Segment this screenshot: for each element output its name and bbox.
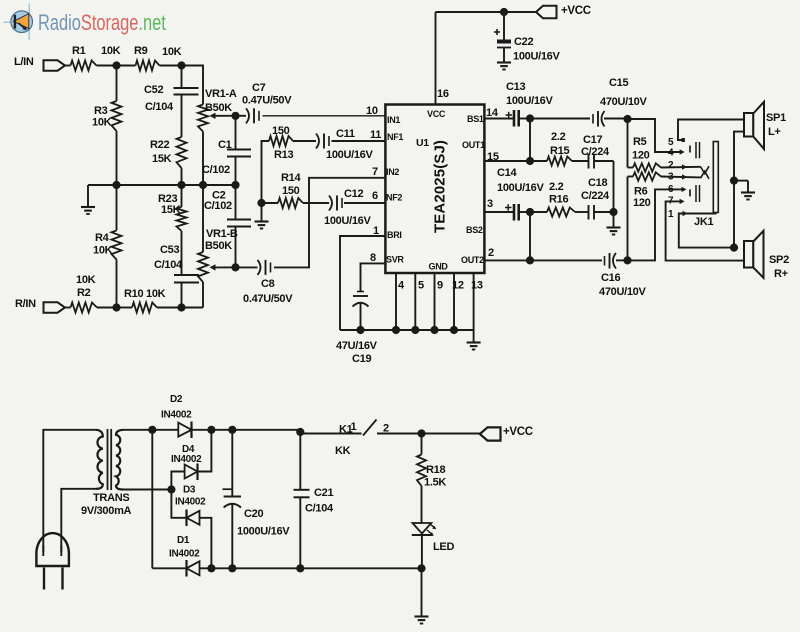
svg-text:3: 3 bbox=[487, 198, 493, 210]
pin 12 wire bbox=[453, 274, 455, 331]
capacitor C8 0.47U/50V bbox=[236, 266, 258, 268]
svg-text:OUT1: OUT1 bbox=[462, 140, 485, 150]
ground symbol C22 bbox=[497, 61, 511, 63]
resistor R2 10K bbox=[65, 307, 71, 309]
ground symbol NF bbox=[261, 203, 263, 221]
wire VCC top rail bbox=[436, 11, 537, 13]
capacitor C11 100U/16V bbox=[293, 140, 316, 142]
svg-text:U1: U1 bbox=[416, 137, 429, 149]
svg-text:10K: 10K bbox=[146, 288, 166, 300]
svg-text:BRI: BRI bbox=[387, 230, 402, 240]
svg-text:C/224: C/224 bbox=[581, 190, 610, 202]
svg-text:TRANS: TRANS bbox=[93, 492, 129, 504]
switch K1 bbox=[363, 420, 377, 436]
node LED bottom bbox=[417, 564, 425, 572]
node pin 5 bbox=[411, 326, 419, 334]
svg-text:JK1: JK1 bbox=[694, 216, 713, 228]
wire R9 to node bbox=[160, 65, 182, 67]
resistor R3 10K bbox=[116, 66, 118, 102]
connector R/IN input bbox=[44, 302, 66, 312]
node C14 / pin2 bbox=[526, 208, 534, 216]
wire secondary bottom bbox=[123, 489, 171, 491]
svg-text:C/102: C/102 bbox=[204, 200, 232, 212]
diode D2 IN4002 bbox=[178, 423, 191, 437]
svg-text:C19: C19 bbox=[352, 353, 371, 365]
svg-text:C/104: C/104 bbox=[154, 259, 183, 271]
pin 15 wire bbox=[484, 160, 530, 162]
node C52 top bbox=[177, 61, 185, 69]
pin 9 wire bbox=[434, 274, 436, 331]
svg-text:IN4002: IN4002 bbox=[161, 410, 192, 421]
wire C17 to gnd node bbox=[613, 161, 615, 212]
svg-text:100U/16V: 100U/16V bbox=[497, 182, 544, 194]
wire node A down to D1 bbox=[151, 430, 153, 569]
capacitor C12 100U/16V bbox=[303, 202, 329, 204]
node rail VR1 bbox=[199, 181, 207, 189]
svg-text:12: 12 bbox=[452, 280, 464, 292]
svg-text:C16: C16 bbox=[601, 272, 620, 284]
capacitor C14 100U/16V bbox=[485, 211, 514, 213]
pin 3 wire bbox=[484, 211, 505, 213]
svg-text:9V/300mA: 9V/300mA bbox=[81, 505, 132, 517]
node bridge B bbox=[167, 485, 175, 493]
node pin 2 bbox=[526, 256, 534, 264]
svg-text:C/224: C/224 bbox=[581, 146, 610, 158]
svg-text:R3: R3 bbox=[94, 105, 108, 117]
svg-text:120: 120 bbox=[632, 150, 650, 162]
svg-text:B50K: B50K bbox=[205, 240, 232, 252]
capacitor C17 C/224 bbox=[572, 160, 589, 162]
svg-text:R10: R10 bbox=[124, 288, 143, 300]
svg-text:C/102: C/102 bbox=[202, 164, 230, 176]
connector +VCC bottom bbox=[480, 427, 501, 440]
resistor R13 150 bbox=[262, 141, 270, 203]
svg-text:C52: C52 bbox=[144, 84, 163, 96]
op-amp U1 TEA2025(SJ) IC body bbox=[385, 105, 484, 274]
capacitor C2 C/102 bbox=[235, 185, 237, 220]
svg-text:R4: R4 bbox=[95, 232, 110, 244]
pin 13 wire bbox=[473, 274, 475, 331]
wire L out to jack 4 bbox=[628, 119, 682, 152]
wire BS2 to OUT2 bbox=[529, 212, 531, 260]
svg-text:0.47U/50V: 0.47U/50V bbox=[242, 95, 292, 107]
wire R out to R6 bbox=[627, 177, 629, 261]
pin 16 wire VCC bbox=[435, 12, 437, 105]
resistor R23 15K bbox=[181, 185, 183, 207]
svg-text:100U/16V: 100U/16V bbox=[506, 95, 553, 107]
svg-text:1: 1 bbox=[668, 209, 674, 220]
wire R2 to node bbox=[97, 307, 117, 309]
svg-text:VR1-B: VR1-B bbox=[206, 228, 238, 240]
resistor R15 2.2 bbox=[530, 160, 547, 162]
svg-text:10K: 10K bbox=[93, 245, 113, 257]
ground symbol zobel bbox=[613, 212, 615, 227]
diode D3 IN4002 bbox=[171, 490, 186, 518]
svg-text:2: 2 bbox=[668, 160, 674, 171]
wire C8 to pin 7 bbox=[274, 178, 385, 268]
resistor R22 15K bbox=[177, 137, 187, 168]
transformer TRANS 9V/300mA bbox=[96, 430, 103, 489]
wire R out to jack 6 bbox=[628, 189, 684, 260]
potentiometer VR1-B B50K bbox=[202, 185, 204, 252]
resistor R16 2.2 bbox=[530, 211, 547, 213]
node C21 top bbox=[296, 428, 304, 436]
svg-text:D1: D1 bbox=[177, 535, 190, 546]
svg-text:1: 1 bbox=[351, 421, 357, 433]
wire L out to R5 bbox=[627, 119, 629, 168]
svg-text:SVR: SVR bbox=[386, 255, 404, 265]
svg-text:BS1: BS1 bbox=[467, 114, 484, 124]
RadioStorage.net logo bbox=[28, 4, 30, 41]
svg-text:10: 10 bbox=[366, 105, 378, 117]
svg-text:R1: R1 bbox=[72, 45, 86, 57]
wire speaker SP1 to jack 5 bbox=[678, 120, 744, 141]
svg-text:VR1-A: VR1-A bbox=[205, 88, 237, 100]
bottom supply rail bbox=[211, 567, 421, 569]
node speaker ground bbox=[730, 177, 738, 185]
svg-text:C/104: C/104 bbox=[305, 503, 334, 515]
svg-text:10K: 10K bbox=[162, 46, 182, 58]
svg-text:100U/16V: 100U/16V bbox=[324, 215, 371, 227]
svg-text:470U/10V: 470U/10V bbox=[600, 96, 647, 108]
svg-text:150: 150 bbox=[282, 185, 300, 197]
ground symbol input rail bbox=[87, 185, 89, 206]
svg-text:R5: R5 bbox=[633, 136, 647, 148]
pin 5 wire bbox=[414, 274, 416, 331]
wire SP1 return bbox=[734, 132, 744, 181]
capacitor C22 100U/16V bbox=[503, 12, 505, 40]
diode D4 IN4002 bbox=[171, 472, 184, 490]
wire jack 1 sleeve to ground bbox=[679, 214, 734, 248]
pin 4 wire bbox=[395, 274, 397, 331]
svg-text:KK: KK bbox=[335, 445, 351, 457]
svg-text:R13: R13 bbox=[274, 149, 293, 161]
wire plug to primary bottom bbox=[61, 489, 96, 552]
node C20 top bbox=[228, 426, 236, 434]
svg-text:D3: D3 bbox=[183, 485, 196, 496]
svg-text:R+: R+ bbox=[774, 268, 788, 280]
node rail R22/R23 bbox=[177, 181, 185, 189]
node R/IN junction bbox=[112, 303, 120, 311]
wire ground rail to SP2 bbox=[733, 181, 735, 248]
svg-text:+VCC: +VCC bbox=[561, 5, 591, 17]
svg-text:100U/16V: 100U/16V bbox=[513, 51, 560, 63]
pin 2 wire OUT2 bbox=[484, 259, 530, 261]
resistor R9 10K bbox=[136, 61, 160, 71]
capacitor C16 470U/10V bbox=[604, 256, 606, 266]
svg-text:R14: R14 bbox=[281, 172, 301, 184]
svg-text:C17: C17 bbox=[583, 134, 602, 146]
capacitor C18 C/224 bbox=[575, 211, 589, 213]
svg-text:L+: L+ bbox=[768, 126, 781, 138]
ground symbol speakers bbox=[734, 180, 748, 182]
wire pin 1 BRI bbox=[340, 236, 385, 330]
svg-text:NF2: NF2 bbox=[386, 193, 402, 203]
wire switch to +VCC bbox=[377, 433, 480, 435]
node rail C1/C2 bbox=[231, 181, 239, 189]
wire R5 to jack 2 bbox=[661, 166, 701, 169]
headphone jack JK1 contacts bbox=[695, 142, 697, 158]
speaker SP2 bbox=[744, 241, 753, 268]
svg-text:IN4002: IN4002 bbox=[175, 497, 206, 508]
wire secondary top rail bbox=[123, 429, 300, 431]
svg-text:C/104: C/104 bbox=[145, 101, 174, 113]
node R18 top bbox=[417, 429, 425, 437]
svg-text:6: 6 bbox=[668, 184, 674, 195]
svg-text:B50K: B50K bbox=[205, 102, 232, 114]
node rail R3/R4 bbox=[112, 181, 120, 189]
connector L/IN input bbox=[44, 60, 66, 70]
wire node to VR1-A top bbox=[182, 66, 204, 105]
node pin 9 bbox=[430, 326, 438, 334]
resistor R18 1.5K bbox=[421, 434, 423, 455]
svg-text:SP1: SP1 bbox=[766, 112, 786, 124]
capacitor C19 47U/16V bbox=[357, 291, 364, 293]
svg-text:R15: R15 bbox=[550, 145, 569, 157]
svg-text:10K: 10K bbox=[101, 45, 121, 57]
svg-text:100U/16V: 100U/16V bbox=[326, 149, 373, 161]
svg-text:10K: 10K bbox=[76, 274, 96, 286]
wire jack 7 to speaker SP2 bbox=[666, 201, 744, 260]
svg-text:GND: GND bbox=[429, 262, 449, 272]
svg-text:10K: 10K bbox=[92, 117, 112, 129]
resistor R6 120 bbox=[628, 176, 634, 178]
svg-text:IN4002: IN4002 bbox=[171, 454, 202, 465]
svg-text:16: 16 bbox=[437, 88, 449, 100]
capacitor C1 C/102 bbox=[235, 116, 237, 150]
svg-text:C21: C21 bbox=[314, 487, 333, 499]
resistor R5 120 bbox=[628, 167, 634, 169]
svg-text:VCC: VCC bbox=[427, 109, 446, 119]
svg-text:C14: C14 bbox=[497, 167, 517, 179]
svg-text:C18: C18 bbox=[588, 177, 607, 189]
wire R6 to jack 3 bbox=[661, 176, 701, 179]
svg-text:1000U/16V: 1000U/16V bbox=[237, 526, 290, 538]
node R10 / C53 bbox=[177, 303, 185, 311]
svg-text:470U/10V: 470U/10V bbox=[599, 286, 646, 298]
wire node to VR1-B bottom bbox=[182, 307, 204, 309]
AC plug bbox=[36, 533, 69, 566]
node C13 / pin15 bbox=[526, 114, 534, 122]
connector +VCC top bbox=[536, 6, 557, 18]
resistor R1 10K bbox=[71, 61, 97, 71]
node bridge A bbox=[148, 426, 156, 434]
node VR1-B wiper / C2 bottom bbox=[231, 263, 239, 271]
resistor R4 10K bbox=[116, 185, 118, 231]
capacitor C7 0.47U/50V bbox=[236, 115, 247, 117]
svg-text:R22: R22 bbox=[150, 139, 169, 151]
svg-text:C20: C20 bbox=[244, 508, 263, 520]
svg-text:IN4002: IN4002 bbox=[169, 549, 200, 560]
node pin 15 bbox=[526, 157, 534, 165]
node D1/D3 bbox=[207, 564, 215, 572]
wire pin 8 SVR bbox=[361, 263, 386, 291]
node pin 4 bbox=[392, 326, 400, 334]
node C21 bottom bbox=[296, 564, 304, 572]
node R output bbox=[623, 256, 631, 264]
svg-text:7: 7 bbox=[668, 196, 674, 207]
svg-text:L/IN: L/IN bbox=[14, 56, 34, 68]
node L/IN junction bbox=[112, 61, 120, 69]
wire OUT2 to C16 bbox=[530, 259, 602, 261]
svg-text:R16: R16 bbox=[549, 194, 568, 206]
capacitor C13 100U/16V bbox=[485, 118, 514, 120]
svg-text:47U/16V: 47U/16V bbox=[336, 340, 378, 352]
svg-text:C12: C12 bbox=[344, 188, 363, 200]
svg-text:IN1: IN1 bbox=[387, 115, 400, 125]
svg-text:C53: C53 bbox=[160, 244, 179, 256]
wire C7 to pin 10 bbox=[263, 115, 386, 117]
resistor R14 150 bbox=[262, 202, 279, 204]
svg-text:D2: D2 bbox=[170, 394, 183, 405]
svg-text:RadioStorage.net: RadioStorage.net bbox=[38, 11, 166, 36]
potentiometer VR1-A B50K bbox=[198, 105, 208, 132]
wire R1 to node bbox=[97, 65, 117, 67]
node VR1-A wiper / C1 top bbox=[231, 112, 239, 120]
node L output bbox=[623, 115, 631, 123]
svg-text:SP2: SP2 bbox=[769, 254, 789, 266]
svg-text:0.47U/50V: 0.47U/50V bbox=[243, 293, 293, 305]
svg-text:4: 4 bbox=[668, 148, 674, 159]
svg-text:R18: R18 bbox=[426, 464, 445, 476]
svg-text:C1: C1 bbox=[218, 139, 232, 151]
wire plug to primary top bbox=[43, 430, 96, 552]
svg-text:7: 7 bbox=[372, 166, 378, 178]
svg-text:1.5K: 1.5K bbox=[424, 477, 446, 489]
svg-text:5: 5 bbox=[418, 280, 424, 292]
wire rail jog bbox=[300, 430, 362, 434]
svg-text:R/IN: R/IN bbox=[15, 298, 36, 310]
svg-text:120: 120 bbox=[633, 197, 651, 209]
svg-text:C11: C11 bbox=[336, 128, 355, 140]
svg-text:C13: C13 bbox=[506, 81, 525, 93]
node C22 bbox=[500, 8, 508, 16]
svg-text:8: 8 bbox=[370, 252, 376, 264]
svg-text:9: 9 bbox=[437, 280, 443, 292]
node D2/D4 cathodes bbox=[207, 426, 215, 434]
svg-text:C15: C15 bbox=[609, 77, 628, 89]
svg-text:15K: 15K bbox=[152, 153, 172, 165]
node C19 bus bbox=[356, 326, 364, 334]
node R13/R14 ground bbox=[257, 199, 265, 207]
svg-text:+VCC: +VCC bbox=[503, 426, 533, 438]
capacitor C21 C/104 bbox=[299, 432, 301, 490]
node pin 12 bbox=[450, 326, 458, 334]
ground symbol bus bbox=[473, 330, 475, 342]
wire OUT1 to C15 bbox=[530, 118, 590, 120]
capacitor C20 1000U/16V bbox=[231, 430, 233, 497]
svg-text:LED: LED bbox=[433, 541, 454, 553]
capacitor C53 C/104 bbox=[174, 274, 199, 276]
resistor R10 10K bbox=[117, 307, 133, 309]
svg-text:C7: C7 bbox=[252, 82, 266, 94]
node SP2 top bbox=[730, 244, 738, 252]
svg-text:2: 2 bbox=[488, 247, 494, 259]
svg-text:C8: C8 bbox=[261, 278, 275, 290]
svg-text:14: 14 bbox=[486, 107, 499, 119]
svg-text:6: 6 bbox=[372, 190, 378, 202]
svg-text:11: 11 bbox=[370, 129, 381, 141]
svg-text:R2: R2 bbox=[77, 287, 91, 299]
svg-text:15: 15 bbox=[487, 151, 499, 163]
speaker SP1 bbox=[744, 113, 753, 137]
svg-text:BS2: BS2 bbox=[466, 225, 483, 235]
node zobel ground bbox=[609, 208, 617, 216]
ground rail mid bbox=[88, 184, 236, 186]
svg-text:NF1: NF1 bbox=[387, 132, 403, 142]
svg-text:R9: R9 bbox=[134, 45, 148, 57]
svg-text:13: 13 bbox=[471, 280, 483, 292]
svg-text:C22: C22 bbox=[514, 36, 533, 48]
node C20 bottom bbox=[228, 564, 236, 572]
wire node to R9 bbox=[117, 65, 136, 67]
svg-text:15K: 15K bbox=[161, 204, 181, 216]
svg-text:2.2: 2.2 bbox=[551, 131, 566, 143]
ground symbol supply bbox=[421, 568, 423, 616]
svg-text:2.2: 2.2 bbox=[549, 181, 564, 193]
capacitor C15 470U/10V bbox=[592, 114, 594, 124]
svg-text:IN2: IN2 bbox=[386, 167, 399, 177]
wire L/IN to R1 bbox=[65, 65, 71, 67]
capacitor C52 C/104 bbox=[181, 66, 183, 89]
svg-text:150: 150 bbox=[272, 125, 290, 137]
ground bus under IC bbox=[340, 329, 474, 331]
LED bbox=[413, 523, 432, 534]
svg-text:R6: R6 bbox=[634, 186, 648, 198]
diode D1 IN4002 bbox=[152, 567, 186, 569]
svg-text:OUT2: OUT2 bbox=[461, 255, 484, 265]
svg-text:3: 3 bbox=[668, 172, 674, 183]
svg-text:5: 5 bbox=[668, 137, 674, 148]
svg-text:TEA2025(SJ): TEA2025(SJ) bbox=[432, 140, 449, 233]
